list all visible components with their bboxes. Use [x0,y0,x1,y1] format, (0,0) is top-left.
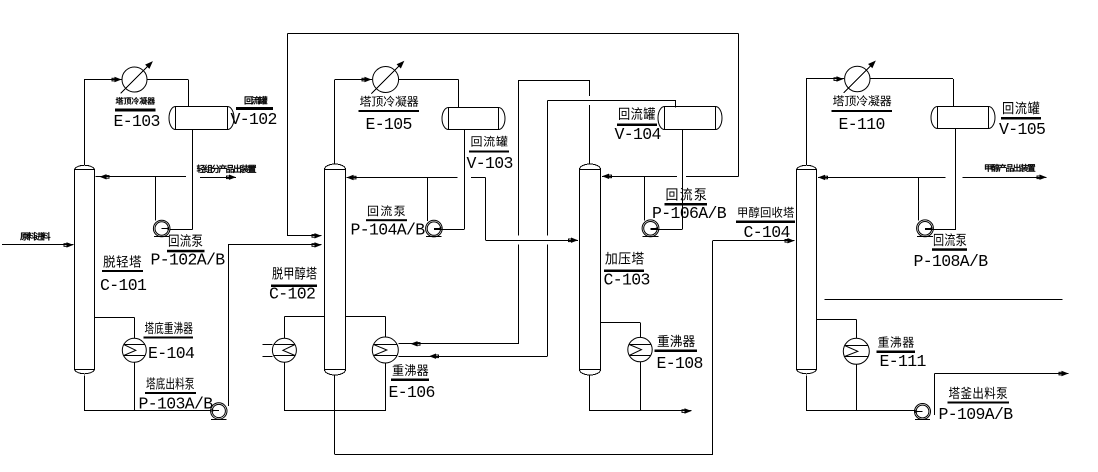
svg-text:P-103A/B: P-103A/B [139,395,214,414]
arrow C-102 upper feed [315,233,322,238]
svg-text:P-108A/B: P-108A/B [914,252,989,271]
wire C-101 reboiler vapor return [95,317,135,319]
reboiler E-111 (重沸器) [843,338,869,364]
wire E-106 bottom [385,363,387,411]
svg-text:V-104: V-104 [615,125,662,144]
pump P-106A/B (回流泵) [642,220,659,237]
wire C-101 bottoms line [84,375,86,411]
label 脱轻塔 [103,255,115,267]
column C-103 (加压塔) [580,170,601,370]
arrow C-102 lower feed [315,242,322,247]
wire E-106 condensate line to V-104 [398,356,547,358]
wire C-102 reboiler liquid header [284,410,385,412]
arrow feed into C-104 [788,238,795,243]
arrow into E-106 upper [411,341,418,346]
label 塔顶冷凝器 for E-103 [116,97,123,104]
wire E-106 vapor return to C-102 [385,317,387,338]
wire V-102 bottom to pump P-102 [192,130,194,230]
label 塔顶冷凝器 for E-110 [833,95,844,106]
wire P-103 discharge to C-102 feed [228,245,230,406]
label 加压塔 [605,252,616,265]
wire C-104 reflux header [818,177,946,179]
label 原料进料 [20,233,28,241]
label 回流泵 for P-108 [934,234,943,246]
svg-text:P-102A/B: P-102A/B [151,251,226,270]
arrow C-103 bottoms out [685,408,692,413]
wire C-102 bottoms to C-104 feed [334,375,336,454]
wire left reboiler vapor return to C-102 [284,317,286,339]
arrow reflux into C-104 [818,175,825,180]
wire E-108 bottom [640,362,642,411]
reboiler E-104 (塔底重沸器) [122,338,146,362]
arrow bottoms product out [1062,371,1069,376]
pump P-102A/B (回流泵) [153,220,170,237]
arrow into E-103 [115,77,122,82]
arrow light-ends product out [229,175,236,180]
wire recycle into C-102 upper feed [287,33,289,236]
wire P-108 discharge riser [918,177,920,220]
column C-102 (脱甲醇塔) [325,170,346,370]
reboiler E-106 (重沸器) [372,337,398,363]
label 回流泵 for P-106 [667,188,678,200]
wire C-103 reflux header and recycle loop [602,176,677,178]
pump P-104A/B (回流泵) [426,220,443,237]
wire V-105 bottom to pump P-108 [955,129,957,230]
wire C-103 overhead vapor to E-106 [589,105,591,165]
label 回流罐 for V-102 [245,97,253,105]
pump P-103A/B (塔底出料泵) [211,403,227,419]
wire left reboiler stubs [262,344,272,346]
arrow feed into C-101 [67,242,74,247]
svg-text:E-104: E-104 [148,344,195,363]
label 回流罐 for V-103 [471,136,481,147]
column C-101 (脱轻塔) [75,170,95,370]
wire left reboiler bottom [284,362,286,411]
wire C-104 overhead riser [806,79,808,165]
arrow methanol product out [1040,175,1047,180]
svg-text:V-102: V-102 [231,110,277,129]
wire C-102 reflux header [347,177,458,179]
wire V-104 bottom to pump P-106 [682,130,684,229]
reboiler (left) of C-102 [272,338,296,362]
condenser E-105 (塔顶冷凝器) [373,67,399,93]
label 回流罐 for V-105 [1003,102,1013,114]
wire P-109 discharge line [934,374,936,416]
svg-text:E-110: E-110 [839,115,885,134]
label 甲醇产品出装置 [985,164,991,171]
wire light-ends product stub [200,177,236,179]
wire C-103 bottoms line [589,375,591,411]
wire P-106 discharge riser [644,176,646,220]
label 轻组分产品出装置 [197,165,205,173]
svg-text:E-105: E-105 [366,115,412,134]
svg-text:C-103: C-103 [604,271,650,290]
condenser E-110 (塔顶冷凝器) [845,66,870,91]
wire C-101 overhead riser [84,80,86,165]
wire E-108 vapor return to C-103 [640,323,642,338]
arrow reflux into C-102 [347,175,354,180]
arrow into E-105 [365,77,372,82]
label 重沸器 for E-111 [878,336,889,347]
svg-text:P-106A/B: P-106A/B [652,204,727,223]
wire E-106 heating inlet from C-103 overhead [398,343,518,345]
svg-text:E-108: E-108 [657,354,703,373]
wire V-103 bottom to pump P-104 [464,130,466,230]
svg-text:C-102: C-102 [269,285,315,304]
wire E-111 vapor return to C-104 [856,319,858,338]
svg-text:V-103: V-103 [467,154,513,173]
wire methanol product stub [962,177,1046,179]
wire P-102 discharge riser [155,177,157,221]
label 重沸器 for E-106 [393,364,404,375]
wire P-104 discharge riser [427,178,429,222]
svg-text:C-101: C-101 [100,276,147,295]
arrow feed into C-103 [571,238,578,243]
label 塔底出料泵 [146,377,155,389]
wire E-111 bottom [856,364,858,411]
wire E-105 outlet to V-103 [399,79,459,81]
wire E-106 condensate riser to V-104 [547,100,549,235]
svg-text:E-111: E-111 [880,352,927,371]
pump P-108A/B (回流泵) [917,220,934,237]
label 重沸器 for E-108 [658,335,669,347]
label 回流罐 for V-104 [619,108,629,120]
label 塔顶冷凝器 for E-105 [360,96,371,107]
wire C-102 distillate to C-103 feed [485,178,487,241]
arrow on E-106 lower line [429,354,436,359]
svg-text:P-104A/B: P-104A/B [351,221,426,240]
reflux drum V-105 (回流罐) [938,107,989,129]
reflux drum V-103 (回流罐) [449,108,499,130]
condenser E-103 (塔顶冷凝器) [122,67,147,92]
label 回流泵 for P-104 [368,206,378,217]
svg-text:C-104: C-104 [744,223,791,242]
label 回流泵 for P-102 [169,235,179,247]
column C-104 (甲醇回收塔) [797,170,817,370]
svg-text:P-109A/B: P-109A/B [939,405,1014,424]
arrow reflux into C-103 [602,174,609,179]
label 甲醇回收塔 [738,207,746,217]
wire feed line 原料进料 [2,244,74,246]
arrow reflux into C-101 [100,174,107,179]
reflux drum V-102 (回流罐) [176,107,228,130]
wire C-102 overhead riser [334,80,336,165]
arrow into E-110 [837,76,844,81]
reboiler E-108 (重沸器) [628,337,652,361]
label 脱甲醇塔 [272,267,282,280]
label 塔底重沸器 [145,322,154,334]
pump P-109A/B (塔釜出料泵) [915,404,931,420]
label 塔釜出料泵 [949,387,960,399]
separator rule line [825,299,1063,301]
svg-text:E-103: E-103 [114,112,160,131]
wire E-103 outlet to V-102 [147,79,188,81]
wire E-110 outlet to V-105 [870,78,953,80]
svg-text:E-106: E-106 [389,383,435,402]
wire E-104 bottom to bottoms header [134,362,136,411]
svg-text:V-105: V-105 [999,120,1045,139]
wire C-101 reflux header [96,176,187,178]
wire C-104 bottoms line [806,375,808,411]
reflux drum V-104 (回流罐) [665,107,716,130]
